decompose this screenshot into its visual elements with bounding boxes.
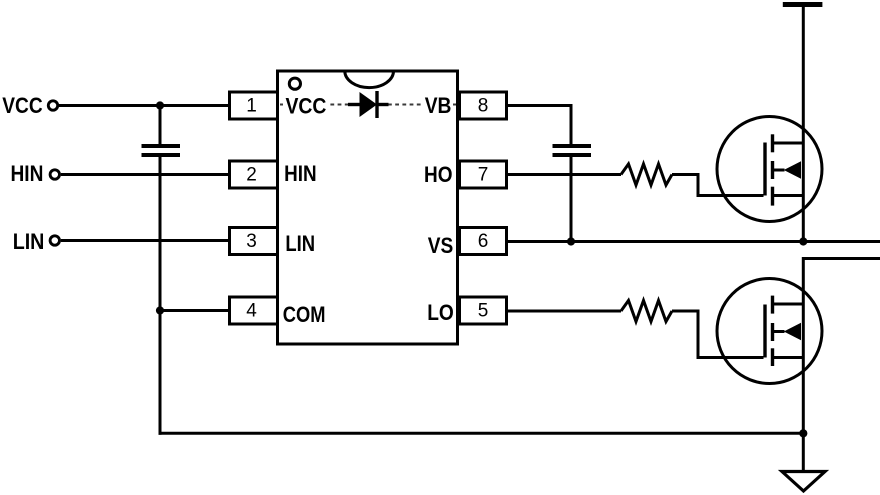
op IC U1 body xyxy=(278,71,458,344)
IC notch xyxy=(345,71,394,88)
pin name VB xyxy=(424,93,454,118)
node ground junction xyxy=(799,429,807,437)
pin box 1 xyxy=(230,92,278,119)
svg-text:8: 8 xyxy=(478,95,489,116)
wire bootstrap cap to VS xyxy=(570,157,573,242)
svg-text:LIN: LIN xyxy=(13,229,45,254)
svg-text:7: 7 xyxy=(478,164,489,185)
svg-text:LIN: LIN xyxy=(285,231,315,256)
pin box 5 xyxy=(460,297,507,324)
svg-text:VS: VS xyxy=(428,233,454,258)
terminal HIN xyxy=(50,170,59,179)
wire left vertical rail xyxy=(159,106,162,145)
capacitor C1 (input decoupling) xyxy=(142,146,181,155)
node VCC rail junction xyxy=(156,101,164,109)
svg-text:LO: LO xyxy=(427,300,454,325)
node bootstrap-VS junction xyxy=(567,237,575,245)
svg-text:5: 5 xyxy=(478,300,489,321)
wire resistor to Q2 gate xyxy=(672,311,764,358)
svg-text:HIN: HIN xyxy=(284,161,317,186)
power rail bar xyxy=(783,2,823,7)
svg-text:6: 6 xyxy=(478,231,489,252)
pin box 6 xyxy=(460,228,507,255)
svg-text:HIN: HIN xyxy=(11,161,44,186)
pin box 4 xyxy=(230,297,278,324)
dashed net VCC to VB inside IC xyxy=(280,104,456,106)
resistor R1 (high side gate) xyxy=(621,164,672,185)
wire power rail to VS junction through Q1 xyxy=(802,6,805,242)
wire pin8 to bootstrap cap xyxy=(507,106,572,145)
pin name VCC xyxy=(283,93,328,118)
wire COM junction to pin4 xyxy=(160,309,229,312)
wire bottom ground return xyxy=(159,432,804,435)
transistor Q1 (high side MOSFET) xyxy=(717,117,822,222)
pin box 2 xyxy=(230,161,278,188)
svg-text:VCC: VCC xyxy=(2,93,43,118)
wire resistor to Q1 gate xyxy=(672,175,764,196)
svg-text:HO: HO xyxy=(424,162,453,187)
ground xyxy=(782,472,825,492)
svg-text:1: 1 xyxy=(246,95,257,116)
terminal VCC xyxy=(48,101,57,110)
resistor R2 (low side gate) xyxy=(621,301,672,322)
wire pin7 to gate resistor xyxy=(507,173,622,176)
svg-text:VCC: VCC xyxy=(286,93,327,118)
wire pin5 to gate resistor xyxy=(507,310,622,313)
wire VCC input to pin1 xyxy=(59,104,229,107)
pin box 7 xyxy=(460,161,507,188)
diode D1 bootstrap xyxy=(348,91,389,118)
transistor Q2 (low side MOSFET) xyxy=(717,279,822,384)
wire switch node to right edge xyxy=(803,259,880,471)
wire pin6 VS net xyxy=(507,240,880,243)
pin box 8 xyxy=(460,92,507,119)
terminal LIN xyxy=(50,236,59,245)
node COM junction xyxy=(156,306,164,314)
wire LIN input to pin3 xyxy=(61,239,229,242)
pin box 3 xyxy=(230,228,278,255)
node source-VS junction xyxy=(799,237,807,245)
svg-text:3: 3 xyxy=(246,231,257,252)
IC pin1 indicator dot xyxy=(289,78,300,89)
capacitor C2 bootstrap xyxy=(553,146,592,155)
wire HIN input to pin2 xyxy=(61,173,229,176)
svg-text:2: 2 xyxy=(246,164,257,185)
svg-text:4: 4 xyxy=(246,300,257,321)
svg-text:VB: VB xyxy=(425,93,452,118)
svg-text:COM: COM xyxy=(283,302,326,327)
